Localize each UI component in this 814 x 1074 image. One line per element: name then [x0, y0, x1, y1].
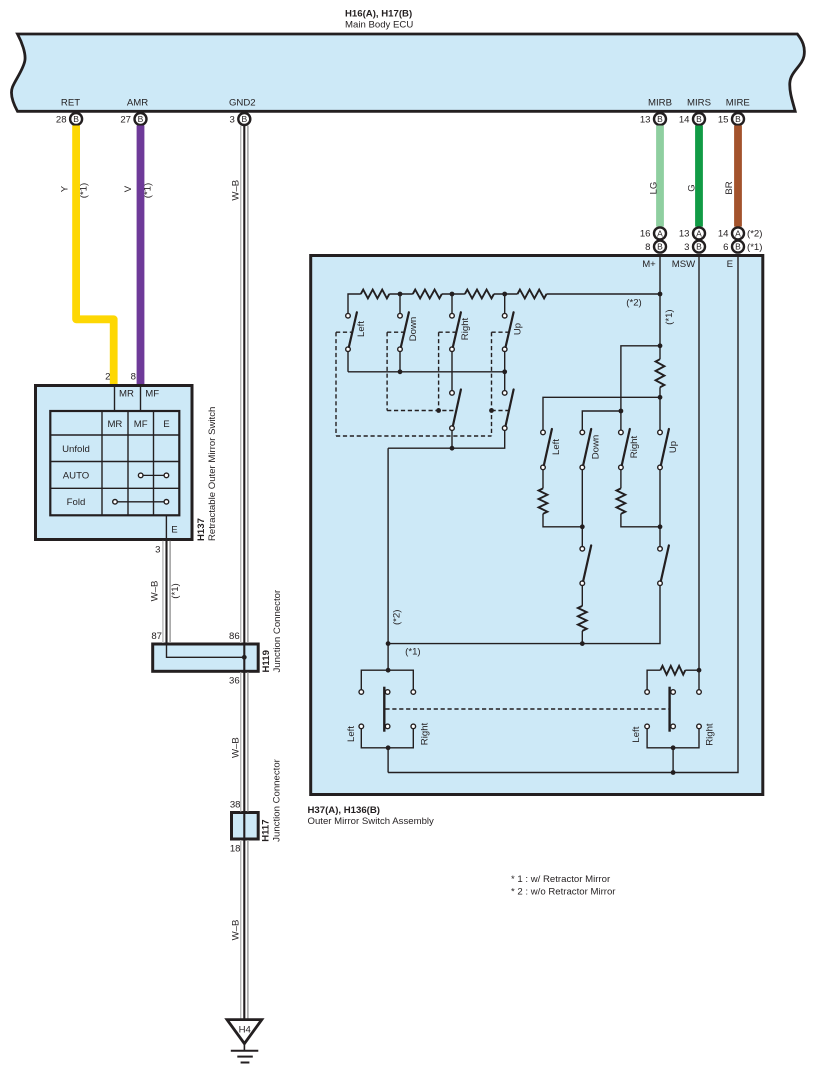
wire W-B (H137 E to H119 pin 87): [163, 541, 170, 645]
wire MR cell divider: [114, 387, 116, 411]
node bottom rail/drop: [386, 641, 391, 646]
svg-text:H4: H4: [239, 1024, 252, 1035]
label H119: [261, 650, 272, 672]
node left rocker out: [386, 745, 391, 750]
wire Up1 to Up2: [504, 352, 506, 391]
label pin 2: [105, 371, 110, 382]
svg-text:B: B: [735, 114, 741, 124]
wire LG (MIRB to M+), light green: [656, 126, 664, 227]
svg-text:Left: Left: [631, 726, 642, 742]
label MF column: [134, 419, 148, 430]
label pin 38 H117: [230, 799, 241, 810]
wire Left1 bottom stub: [347, 352, 349, 372]
switch Left (stage 1): [346, 312, 357, 351]
svg-text:MR: MR: [119, 389, 134, 400]
wire V (AMR to H137 MF), purple: [137, 126, 145, 385]
wire right rocker left lead: [647, 670, 660, 689]
svg-text:H117: H117: [261, 819, 272, 841]
wire Left2 resistor out: [543, 514, 582, 527]
wire rail stage1: [348, 371, 505, 373]
label Retractable Outer Mirror Switch: [207, 407, 218, 541]
svg-text:(*2): (*2): [391, 610, 402, 625]
switch Right (stage 1): [450, 312, 461, 351]
switch Up (section 2): [658, 429, 669, 470]
label H37(A), H136(B): [308, 805, 381, 816]
svg-text:Down: Down: [590, 435, 601, 460]
label H117: [261, 819, 272, 841]
svg-text:38: 38: [230, 799, 241, 810]
label MF top cell: [145, 389, 159, 400]
wire left rocker bottom bar: [361, 729, 413, 748]
linkage dashed Left tie: [336, 331, 352, 333]
wire Up2 through: [659, 470, 661, 547]
linkage dashed Right tie: [439, 331, 457, 333]
svg-text:B: B: [735, 242, 741, 252]
svg-text:Junction Connector: Junction Connector: [272, 758, 283, 841]
svg-text:H16(A), H17(B): H16(A), H17(B): [345, 9, 412, 20]
wire Y (RET to H137 MR), yellow: [76, 126, 114, 385]
svg-text:Left: Left: [551, 439, 562, 455]
linkage dashed Up tie: [492, 331, 510, 333]
label Left (select right rocker): [631, 726, 642, 742]
pin label MIRS: [687, 98, 711, 109]
linkage dashed Down tie: [387, 331, 404, 333]
svg-text:G: G: [687, 184, 698, 191]
wire Down1 bottom stub: [399, 352, 401, 372]
switch position table H137: [50, 411, 179, 515]
svg-text:B: B: [73, 114, 79, 124]
label Right (select left rocker): [420, 722, 431, 745]
svg-text:B: B: [241, 114, 247, 124]
wire W-B white edges upper: [241, 126, 248, 644]
svg-text:MIRE: MIRE: [726, 98, 750, 109]
wire chain lead-in: [348, 294, 361, 313]
svg-text:LG: LG: [648, 182, 659, 195]
pin 15 B (MIRE): [718, 113, 744, 125]
svg-text:MR: MR: [107, 419, 122, 430]
svg-text:18: 18: [230, 844, 241, 855]
label V: [123, 185, 134, 192]
wire W-B (GND2 to ground), black stripe center: [243, 126, 245, 1019]
svg-text:A: A: [735, 228, 741, 238]
pin 14 B (MIRS): [679, 113, 705, 125]
svg-text:Down: Down: [408, 317, 419, 342]
wire Down1 top stub: [399, 294, 401, 313]
svg-text:Retractable Outer Mirror Switc: Retractable Outer Mirror Switch: [207, 407, 218, 541]
resistor on M+ net: [656, 359, 665, 387]
node right rocker out: [671, 745, 676, 750]
label (*2) on drop wire: [391, 610, 402, 625]
wire Down3 to resistor: [581, 586, 583, 606]
label Left (section 2): [551, 439, 562, 455]
pin 13 A: [679, 227, 705, 239]
label Left (stage 1): [356, 321, 367, 337]
node E rail/right rocker: [671, 770, 676, 775]
svg-text:Unfold: Unfold: [62, 444, 90, 455]
svg-text:14: 14: [718, 229, 729, 240]
pin label MIRE: [726, 98, 750, 109]
linkage dashed rocker tie: [385, 708, 669, 710]
node H119 joint: [242, 655, 247, 660]
svg-text:B: B: [138, 114, 144, 124]
svg-text:3: 3: [155, 544, 160, 555]
wire Down2 through: [581, 470, 583, 547]
svg-text:Up: Up: [513, 323, 524, 335]
label M+: [642, 259, 656, 270]
contact right rocker upper-right: [697, 690, 702, 695]
label Right (select right rocker): [705, 723, 716, 746]
svg-text:Right: Right: [705, 723, 716, 746]
resistor R (Left2): [539, 488, 548, 513]
svg-text:E: E: [163, 419, 169, 430]
linkage dashed Right drop: [438, 332, 440, 410]
wire inside H119: [167, 645, 245, 657]
wire tap to Down2: [582, 411, 621, 430]
switch Down (section 2 stage 2): [580, 545, 591, 585]
label (*1) on wire V: [142, 183, 153, 198]
contact right rocker lower-left: [645, 724, 650, 729]
svg-text:E: E: [171, 525, 177, 536]
wire right rocker to E rail: [672, 748, 674, 773]
svg-text:(*1): (*1): [405, 646, 420, 657]
label pin 86 H119: [229, 631, 240, 642]
label E bottom cell: [171, 525, 177, 536]
label MR top cell: [119, 389, 134, 400]
label Outer Mirror Switch Assembly: [308, 816, 435, 827]
pin 6 B: [723, 241, 744, 253]
label (*1) at pin 6B: [747, 242, 762, 253]
contact left rocker bar top: [385, 690, 390, 695]
wire Left2 to resistor: [542, 470, 544, 489]
wire drop to rocker feed: [387, 448, 389, 643]
wire chain seg 2-3: [442, 293, 465, 295]
label Fold row: [67, 497, 86, 508]
wire M+ branch to Right2 col: [621, 346, 660, 411]
svg-text:3: 3: [229, 114, 234, 125]
label (*2) at pin 14A: [747, 229, 762, 240]
wire Up2 bottom corner: [388, 430, 505, 448]
node stage2 junction: [450, 446, 455, 451]
svg-text:W–B: W–B: [230, 737, 241, 758]
label Y: [59, 185, 70, 192]
svg-text:(*1): (*1): [142, 183, 153, 198]
resistor R (chain 1): [361, 290, 390, 299]
wire chain to M+ net: [547, 293, 661, 295]
node chain/Right tap: [450, 292, 455, 297]
svg-text:Main Body ECU: Main Body ECU: [345, 19, 413, 30]
node M+/row2 junction: [658, 395, 663, 400]
contact AUTO MF-E: [138, 473, 168, 478]
wire Down3 resistor out: [581, 631, 583, 644]
linkage dashed Left to Up2: [336, 435, 492, 437]
node rail/Up1: [502, 369, 507, 374]
node Down2/Left2 junction: [580, 524, 585, 529]
rocker common bar (right select switch): [668, 687, 670, 732]
pin 27 B (AMR): [120, 113, 146, 125]
switch Down (section 2): [580, 429, 591, 470]
svg-text:BR: BR: [724, 181, 735, 194]
wire resistor to junction: [659, 387, 661, 430]
pin 13 B (MIRB): [640, 113, 666, 125]
label pin 3 of H137: [155, 544, 160, 555]
svg-text:* 2 : w/o Retractor Mirror: * 2 : w/o Retractor Mirror: [511, 886, 616, 897]
label E column: [163, 419, 169, 430]
wire tap to Right2 contact: [620, 411, 622, 430]
resistor R (chain 4): [518, 290, 547, 299]
node linkage Right joint: [436, 408, 441, 413]
label pin 36 H119: [229, 675, 240, 686]
svg-text:B: B: [696, 242, 702, 252]
svg-text:Outer Mirror Switch Assembly: Outer Mirror Switch Assembly: [308, 816, 435, 827]
svg-text:H37(A), H136(B): H37(A), H136(B): [308, 805, 381, 816]
contact right rocker upper-left: [645, 690, 650, 695]
pin 3 B: [684, 241, 705, 253]
wire W-B white edges middle: [241, 672, 248, 811]
label (*1) on E wire: [170, 583, 181, 598]
wire Up1 top stub: [504, 294, 506, 313]
pin 8 B: [645, 241, 666, 253]
label W-B bottom: [230, 920, 241, 941]
rocker common bar (left select switch): [383, 687, 385, 732]
pin 14 A: [718, 227, 744, 239]
label Junction Connector H117: [272, 758, 283, 841]
wire G (MIRS to MSW), green: [695, 126, 703, 227]
svg-text:8: 8: [645, 242, 650, 253]
Main Body ECU connector band H16(A)/H17(B): [11, 34, 804, 111]
label G: [687, 184, 698, 191]
linkage dashed Up drop: [491, 332, 493, 436]
node row2 Right tap: [619, 409, 624, 414]
svg-text:MSW: MSW: [672, 259, 696, 270]
wire M+ row to Left2: [543, 397, 660, 430]
svg-text:Right: Right: [420, 722, 431, 745]
wire Right1 top stub: [451, 294, 453, 313]
svg-text:6: 6: [723, 242, 728, 253]
resistor R (Down3): [578, 606, 587, 631]
contact right rocker bar top: [671, 690, 676, 695]
svg-text:Right: Right: [460, 317, 471, 340]
contact left rocker lower-left: [359, 724, 364, 729]
pin 16 A: [640, 227, 666, 239]
label W-B top: [230, 180, 241, 201]
wire E column to pin: [165, 515, 167, 538]
pin label AMR: [127, 98, 148, 109]
label MSW: [672, 259, 696, 270]
resistor R (right rocker): [660, 666, 685, 675]
resistor R (Right2): [617, 488, 626, 513]
svg-text:(*2): (*2): [626, 297, 641, 308]
switch Up (section 2 stage 2): [658, 545, 669, 585]
linkage dashed Up to Up2 lever: [492, 410, 509, 412]
svg-text:Junction Connector: Junction Connector: [272, 589, 283, 672]
note *1 w/ Retractor Mirror: [511, 874, 611, 885]
wire M+ net vertical: [659, 257, 661, 359]
retractable outer mirror switch box H137: [36, 386, 193, 540]
label (*1) at bottom rail: [405, 646, 420, 657]
svg-text:W–B: W–B: [230, 920, 241, 941]
svg-text:13: 13: [640, 114, 651, 125]
svg-text:A: A: [657, 228, 663, 238]
wire MF cell divider: [140, 387, 142, 411]
label Down (section 2): [590, 435, 601, 460]
wire Right1 to Right2: [451, 352, 453, 391]
label LG: [648, 182, 659, 195]
label (*1) on wire Y: [78, 183, 89, 198]
node chain/Up tap: [502, 292, 507, 297]
svg-text:W–B: W–B: [149, 581, 160, 602]
label pin 8: [131, 371, 136, 382]
label H16(A), H17(B): [345, 9, 412, 20]
resistor R (chain 3): [465, 290, 494, 299]
label Left (select left): [346, 726, 357, 742]
wire E net: [388, 257, 738, 773]
pin label MIRB: [648, 98, 672, 109]
svg-text:H119: H119: [261, 650, 272, 672]
contact left rocker upper-left: [359, 690, 364, 695]
wire BR (MIRE to E), brown: [734, 126, 742, 227]
svg-text:AMR: AMR: [127, 98, 148, 109]
contact left rocker upper-right: [411, 690, 416, 695]
svg-text:27: 27: [120, 114, 131, 125]
switch Up (stage 1): [502, 312, 513, 351]
label MR column: [107, 419, 122, 430]
svg-text:13: 13: [679, 229, 690, 240]
svg-text:Right: Right: [629, 435, 640, 458]
contact right rocker bar bottom: [671, 724, 676, 729]
label Right (section 2): [629, 435, 640, 458]
pin label GND2: [229, 98, 256, 109]
switch Left (section 2): [541, 429, 552, 470]
svg-text:87: 87: [151, 631, 162, 642]
label H137: [196, 518, 207, 541]
svg-text:(*1): (*1): [664, 309, 675, 324]
svg-text:36: 36: [229, 675, 240, 686]
svg-text:MIRS: MIRS: [687, 98, 711, 109]
label Junction Connector H119: [272, 589, 283, 672]
node MSW/resistor junction: [697, 668, 702, 673]
node chain/Down tap: [398, 292, 403, 297]
label Right (stage 1): [460, 317, 471, 340]
svg-text:AUTO: AUTO: [63, 471, 89, 482]
label AUTO row: [63, 471, 89, 482]
switch Up (stage 2): [502, 390, 513, 431]
wire drop to left rocker: [387, 644, 389, 671]
wire Right2 bottom: [451, 430, 453, 448]
svg-text:14: 14: [679, 114, 690, 125]
svg-text:A: A: [696, 228, 702, 238]
svg-text:GND2: GND2: [229, 98, 256, 109]
wire MSW net vertical: [698, 257, 700, 690]
svg-text:B: B: [657, 242, 663, 252]
svg-text:Left: Left: [356, 321, 367, 337]
svg-text:Fold: Fold: [67, 497, 86, 508]
svg-text:MIRB: MIRB: [648, 98, 672, 109]
node M+/resistor-chain junction: [658, 292, 663, 297]
svg-text:(*1): (*1): [78, 183, 89, 198]
contact left rocker lower-right: [411, 724, 416, 729]
label (*2) on M+ branch: [626, 297, 641, 308]
label W-B on E wire: [149, 581, 160, 602]
linkage dashed Down to Right2: [387, 410, 456, 412]
label Down (stage 1): [408, 317, 419, 342]
svg-text:16: 16: [640, 229, 651, 240]
linkage dashed Down drop: [386, 332, 388, 410]
ground H4: [227, 1020, 262, 1063]
svg-text:B: B: [696, 114, 702, 124]
svg-text:MF: MF: [134, 419, 148, 430]
svg-text:E: E: [727, 259, 733, 270]
svg-text:H137: H137: [196, 518, 207, 541]
junction connector box H117: [232, 813, 259, 840]
svg-text:15: 15: [718, 114, 729, 125]
label Unfold row: [62, 444, 90, 455]
label Up (stage 1): [513, 323, 524, 335]
label pin 87 H119: [151, 631, 162, 642]
wire chain seg 3-4: [494, 293, 518, 295]
node M+ branch junction: [658, 343, 663, 348]
svg-text:Y: Y: [59, 185, 70, 192]
junction connector box H119: [153, 644, 259, 671]
note *2 w/o Retractor Mirror: [511, 886, 616, 897]
wire right rocker bottom bar: [647, 729, 699, 748]
label W-B middle: [230, 737, 241, 758]
label Up (section 2): [668, 441, 679, 453]
label Main Body ECU: [345, 19, 413, 30]
wire Right2 resistor out: [621, 514, 660, 527]
svg-text:V: V: [123, 185, 134, 192]
svg-text:8: 8: [131, 371, 136, 382]
node Up2/Right2 junction: [658, 524, 663, 529]
pin label RET: [61, 98, 80, 109]
svg-text:2: 2: [105, 371, 110, 382]
svg-text:Up: Up: [668, 441, 679, 453]
switch Down (stage 1): [398, 312, 409, 351]
node linkage Up joint: [489, 408, 494, 413]
switch Right (section 2): [619, 429, 630, 470]
resistor R (chain 2): [413, 290, 442, 299]
svg-text:W–B: W–B: [230, 180, 241, 201]
linkage dashed Left drop: [335, 332, 337, 436]
node left rocker feed: [386, 668, 391, 673]
svg-text:B: B: [657, 114, 663, 124]
svg-text:28: 28: [56, 114, 67, 125]
contact right rocker lower-right: [697, 724, 702, 729]
node bottom rail/Down3: [580, 641, 585, 646]
label E pin cell: [727, 259, 733, 270]
svg-text:* 1 : w/ Retractor Mirror: * 1 : w/ Retractor Mirror: [511, 874, 611, 885]
label (*1) on M+ net: [664, 309, 675, 324]
outer mirror switch assembly box H37(A)/H136(B): [311, 256, 763, 795]
svg-text:M+: M+: [642, 259, 656, 270]
pin 28 B (RET): [56, 113, 82, 125]
svg-text:(*2): (*2): [747, 229, 762, 240]
svg-text:(*1): (*1): [747, 242, 762, 253]
svg-text:RET: RET: [61, 98, 80, 109]
wire Up3 down corner: [388, 586, 660, 644]
wire chain seg 1-2: [389, 293, 413, 295]
contact left rocker bar bottom: [385, 724, 390, 729]
svg-text:Left: Left: [346, 726, 357, 742]
contact Fold MR-E: [113, 500, 169, 505]
node rail/Down1: [398, 369, 403, 374]
wire Right2 to resistor: [620, 470, 622, 489]
svg-text:3: 3: [684, 242, 689, 253]
svg-text:86: 86: [229, 631, 240, 642]
svg-text:MF: MF: [145, 389, 159, 400]
label BR: [724, 181, 735, 194]
wire left rocker top bar: [361, 670, 413, 690]
svg-text:(*1): (*1): [170, 583, 181, 598]
